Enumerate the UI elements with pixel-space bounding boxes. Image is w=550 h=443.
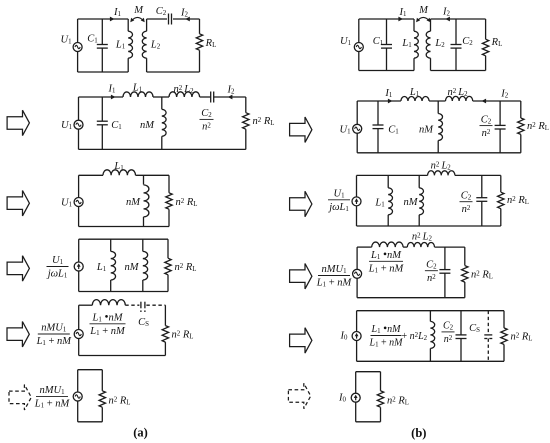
svg-text:n2 L2: n2 L2	[447, 87, 468, 98]
wire row1a secondary top-left	[147, 18, 167, 20]
capacitor C2 row1b	[451, 45, 462, 49]
block arrow row3b	[290, 191, 312, 216]
wire row3a top left	[79, 174, 103, 176]
wire row5b bottom	[357, 360, 504, 362]
label I2 row2a	[227, 84, 236, 95]
capacitor C1 row1b	[381, 45, 392, 49]
inductor L1 row3b	[388, 175, 392, 226]
label M row1b	[418, 5, 429, 16]
svg-text:nM: nM	[419, 124, 434, 135]
label C2 row1b	[462, 36, 473, 47]
inductor L1 row2b	[401, 96, 429, 101]
capacitor C2/n2 row3b	[476, 198, 487, 202]
label nM row3b	[404, 197, 419, 208]
svg-text:C2: C2	[201, 108, 212, 119]
current arrow I1 row1b	[398, 17, 403, 22]
voltage source U1 row2b	[353, 124, 362, 133]
capacitor C1 row2b	[373, 125, 384, 129]
svg-text:U1: U1	[52, 255, 64, 266]
svg-text:C2: C2	[443, 321, 454, 332]
svg-text:U1: U1	[60, 35, 72, 46]
svg-text:CS: CS	[138, 317, 149, 328]
wire row5b left	[356, 311, 358, 362]
svg-text:RL: RL	[205, 38, 217, 49]
wire row5a top left	[79, 304, 93, 306]
label Leq fraction row4b	[368, 249, 405, 275]
wire row4a left	[78, 239, 80, 291]
resistor RL row1b	[482, 39, 488, 56]
label n2L2 row2b	[447, 87, 468, 98]
label Cs row5b	[469, 323, 480, 334]
svg-text:I1: I1	[108, 84, 117, 95]
wire capacitor C2 branch row1b	[455, 19, 457, 71]
wire capacitor C2/n2 branch row3b	[481, 175, 483, 226]
label I2 row1a	[180, 8, 189, 19]
svg-text:I0: I0	[338, 393, 347, 404]
svg-text:n2 RL: n2 RL	[109, 395, 131, 406]
voltage source U1 row3a	[74, 198, 83, 207]
wire row1b primary top	[359, 18, 414, 20]
wire row2b bottom	[357, 152, 521, 154]
label n2L2 row4b	[412, 232, 433, 243]
label C2/n2 row4b	[425, 259, 438, 284]
inductor Leq row5b	[430, 311, 434, 362]
label L1 row1b	[401, 38, 412, 49]
svg-text:I2: I2	[227, 84, 236, 95]
svg-text:C2: C2	[426, 259, 437, 270]
current arrow I1 row2a	[111, 95, 116, 100]
capacitor C1 row2a	[97, 121, 108, 125]
svg-text:C2: C2	[156, 6, 167, 17]
label M row1a	[133, 5, 144, 16]
label n2RL row6b	[387, 395, 409, 406]
wire row1a primary left	[77, 19, 79, 72]
svg-text:(a): (a)	[133, 426, 148, 440]
label n2RL row4a	[175, 262, 197, 273]
label n2RL row6a	[109, 395, 131, 406]
svg-text:n2 RL: n2 RL	[507, 195, 529, 206]
label C1 row2b	[388, 124, 399, 135]
svg-text:+ n2L2: + n2L2	[402, 331, 428, 342]
wire row6b right	[380, 372, 382, 422]
inductor Leq row4b	[372, 242, 403, 247]
resistor n2RL row6b	[377, 391, 383, 407]
label L2 row1b	[434, 38, 445, 49]
capacitor C2/n2 row4b	[439, 270, 450, 274]
resistor n2RL row6a	[99, 391, 105, 407]
wire capacitor C1 branch row1b	[386, 19, 388, 71]
label C2 row1a	[156, 6, 167, 17]
wire row4b top right	[435, 246, 465, 248]
wire dashed row5a	[125, 304, 139, 306]
svg-text:M: M	[418, 5, 429, 16]
svg-text:L1 •nM: L1 •nM	[370, 249, 402, 261]
voltage source U1 row1b	[354, 43, 363, 52]
svg-text:L1: L1	[132, 83, 143, 94]
wire row2b top1	[357, 100, 401, 102]
capacitor Cs dashed row5a	[141, 302, 145, 312]
label n2RL row2a	[253, 116, 275, 127]
wire dashed row5a right	[146, 304, 165, 306]
svg-text:I2: I2	[500, 89, 509, 100]
label C1 row1b	[373, 36, 384, 47]
label n2RL row4b	[471, 269, 493, 280]
label U1/jwL1 row3b	[327, 189, 350, 214]
svg-text:n2: n2	[462, 204, 471, 215]
label I1 row2a	[108, 84, 117, 95]
block arrow row5b	[290, 328, 312, 353]
svg-text:n2 RL: n2 RL	[527, 121, 549, 132]
wire row2b top3	[473, 100, 521, 102]
wire row2b top2	[429, 100, 445, 102]
label I1 row1b	[399, 7, 408, 18]
capacitor C2/n2 row2b	[495, 125, 506, 129]
svg-text:L1 + nM: L1 + nM	[369, 338, 404, 349]
wire row6b bottom	[356, 421, 381, 423]
label I0 row6b	[338, 393, 347, 404]
wire row3b left	[356, 175, 358, 226]
label C2/n2 row5b	[442, 321, 455, 346]
svg-text:nM: nM	[140, 120, 155, 131]
svg-text:L1 + nM: L1 + nM	[89, 326, 126, 337]
label nMU1/(L1+nM) row5a	[36, 323, 73, 348]
label n2L2 row2a	[173, 84, 194, 95]
svg-text:jωL1: jωL1	[46, 269, 68, 280]
mutual coupling M row1b	[416, 17, 430, 22]
svg-text:L1 + nM: L1 + nM	[368, 264, 405, 275]
label RL row1b	[491, 37, 503, 48]
wire row4b top left	[357, 246, 372, 248]
svg-text:C2: C2	[462, 36, 473, 47]
wire row5b top	[357, 310, 504, 312]
wire row1a secondary top-right	[173, 18, 200, 20]
current arrow I1 row1a	[110, 17, 115, 22]
block arrow row2b	[290, 117, 312, 142]
svg-text:U1: U1	[61, 120, 73, 131]
capacitor C2/n2 series row2a	[211, 92, 214, 103]
label Leq fraction row5a	[89, 312, 126, 338]
label U1/jwL1 row4a	[46, 255, 69, 280]
svg-text:n2 RL: n2 RL	[511, 332, 533, 343]
wire row5b right	[503, 311, 505, 362]
label nM row2b	[419, 124, 434, 135]
capacitor C2/n2 row5b	[456, 335, 467, 339]
svg-text:L1 •nM: L1 •nM	[371, 323, 402, 335]
label I0 row5b	[340, 331, 349, 342]
label L1 row2b	[409, 87, 420, 98]
svg-text:U1: U1	[61, 198, 73, 209]
label C2/n2 row2a	[200, 108, 214, 133]
voltage source row4b	[353, 269, 362, 278]
current arrow I2 row1b	[445, 17, 450, 22]
wire row6a left	[77, 370, 79, 422]
label n2RL row2b	[527, 121, 549, 132]
inductor n2L2 row4b	[407, 243, 434, 248]
svg-text:L1: L1	[115, 40, 126, 51]
block arrow row2a	[7, 110, 29, 135]
wire row1a secondary bottom	[147, 71, 200, 73]
wire row5a bottom	[79, 355, 166, 357]
label L1 row4a	[96, 262, 107, 273]
wire row1b primary left	[358, 19, 360, 71]
label n2L2 row3b	[431, 160, 452, 171]
label n2RL row5b	[511, 332, 533, 343]
voltage source U1 row2a	[74, 120, 83, 129]
wire row3b right	[500, 175, 502, 226]
svg-text:nM: nM	[125, 262, 140, 273]
wire row4a right	[167, 239, 169, 291]
svg-text:I1: I1	[113, 7, 122, 18]
inductor L1 row1b	[414, 19, 418, 71]
capacitor C2 row1a	[169, 14, 172, 25]
svg-text:L1: L1	[409, 87, 420, 98]
svg-text:L1 + nM: L1 + nM	[34, 399, 71, 410]
wire row1a primary bottom	[78, 71, 129, 73]
wire row2a top right1	[200, 96, 211, 98]
label nM row2a	[140, 120, 155, 131]
capacitor C1 row1a	[97, 45, 108, 49]
label nM row4a	[125, 262, 140, 273]
wire row4a bottom	[79, 291, 168, 293]
voltage source row6a	[73, 392, 82, 401]
svg-text:U1: U1	[333, 189, 345, 200]
resistor n2RL row3a	[166, 193, 172, 209]
wire row2a top	[79, 96, 124, 98]
label U1 row2b	[339, 124, 351, 135]
block arrow row3a	[7, 191, 29, 216]
svg-text:I1: I1	[399, 7, 408, 18]
wire capacitor C2/n2 branch row4b	[444, 247, 446, 298]
svg-text:CS: CS	[469, 323, 480, 334]
svg-text:C1: C1	[388, 124, 399, 135]
svg-text:L1: L1	[401, 38, 412, 49]
wire row6a right	[101, 370, 103, 422]
wire row2a top right2	[214, 96, 246, 98]
dashed arrow row6a	[9, 385, 31, 410]
current source row4a	[74, 262, 83, 271]
svg-text:L2: L2	[434, 38, 445, 49]
label U1 row1b	[340, 36, 352, 47]
label L1 row2a	[132, 83, 143, 94]
svg-text:I1: I1	[384, 88, 393, 99]
current source row6b	[351, 393, 360, 402]
svg-text:L1 + nM: L1 + nM	[316, 278, 353, 289]
label C2/n2 row3b	[460, 190, 473, 215]
svg-text:C2: C2	[481, 114, 492, 125]
label L1 row3b	[374, 198, 385, 209]
svg-text:L1: L1	[96, 262, 107, 273]
svg-text:nM: nM	[126, 197, 141, 208]
current arrow I2 row2b	[482, 99, 487, 104]
label C1 row1a	[87, 34, 98, 45]
label L2 row1a	[150, 40, 161, 51]
wire row4b right	[464, 247, 466, 298]
inductor nM row4a	[143, 239, 148, 291]
svg-text:(b): (b)	[411, 426, 426, 440]
label nM row3a	[126, 197, 141, 208]
inductor L2 row1b	[426, 19, 430, 71]
wire row1a primary top	[78, 18, 129, 20]
current source row5b	[352, 332, 361, 341]
svg-text:n2 RL: n2 RL	[253, 116, 275, 127]
voltage source U1 row1a	[73, 43, 82, 52]
inductor L1 row4a	[111, 239, 116, 291]
label U1 row1a	[60, 35, 72, 46]
label nMU1/(L1+nM) row6a	[34, 385, 71, 410]
inductor n2L2 row2b	[446, 96, 473, 101]
svg-text:n2 L2: n2 L2	[431, 160, 452, 171]
wire row1b secondary top	[431, 18, 486, 20]
label L1 row3a	[113, 161, 124, 172]
current arrow I2 row2a	[228, 95, 233, 100]
wire row6b top	[356, 371, 381, 373]
block arrow row4a	[7, 256, 29, 281]
wire row6a bottom	[78, 421, 103, 423]
label I2 row2b	[500, 89, 509, 100]
wire row4a top	[79, 238, 168, 240]
svg-text:C1: C1	[373, 36, 384, 47]
capacitor Cs dashed branch row5b	[484, 311, 492, 362]
dashed arrow row6b	[288, 383, 310, 408]
label (a)	[133, 426, 148, 440]
wire row4b left	[356, 247, 358, 298]
wire row4b bottom	[357, 297, 465, 299]
svg-text:jωL1: jωL1	[327, 202, 349, 213]
mutual coupling M row1a	[130, 17, 144, 22]
svg-text:L1: L1	[113, 161, 124, 172]
wire row2a left	[78, 97, 80, 149]
wire row1b primary bottom	[359, 70, 414, 72]
wire capacitor C1 branch row2b	[377, 101, 379, 153]
wire capacitor C1 branch row1a	[101, 19, 103, 72]
wire row2a top mid	[153, 96, 169, 98]
label I1 row1a	[113, 7, 122, 18]
svg-text:n2 L2: n2 L2	[173, 84, 194, 95]
svg-text:U1: U1	[340, 36, 352, 47]
svg-text:n2 RL: n2 RL	[471, 269, 493, 280]
wire row2a right	[245, 97, 247, 149]
svg-text:I0: I0	[340, 331, 349, 342]
wire row3a left	[78, 175, 80, 226]
label n2RL row5a	[172, 330, 194, 341]
resistor RL row1a	[196, 34, 202, 50]
svg-text:n2 L2: n2 L2	[412, 232, 433, 243]
label RL row1a	[205, 38, 217, 49]
wire capacitor C1 branch row2a	[101, 97, 103, 149]
resistor n2RL row2a	[243, 113, 249, 130]
wire row1b secondary right	[485, 19, 487, 71]
inductor nM row3a	[144, 175, 149, 226]
label U1 row2a	[61, 120, 73, 131]
resistor n2RL row5a	[162, 326, 168, 343]
wire row1b secondary bottom	[431, 70, 486, 72]
label (b)	[411, 426, 426, 440]
label U1 row3a	[61, 198, 73, 209]
svg-text:nMU1: nMU1	[41, 323, 67, 334]
wire row3b top right	[455, 174, 501, 176]
inductor L2 row1a	[142, 19, 146, 72]
svg-text:L2: L2	[150, 40, 161, 51]
wire row3a right	[168, 175, 170, 226]
svg-text:n2 RL: n2 RL	[387, 395, 409, 406]
current arrow I2 row1a	[185, 17, 190, 22]
svg-text:nMU1: nMU1	[39, 385, 65, 396]
svg-text:L1 •nM: L1 •nM	[92, 312, 124, 324]
svg-text:L1 + nM: L1 + nM	[36, 336, 73, 347]
inductor n2L2 row2a	[169, 92, 200, 97]
wire row4b top mid	[403, 246, 407, 248]
resistor n2RL row3b	[498, 192, 504, 209]
svg-text:n2: n2	[444, 334, 453, 345]
current arrow I1 row2b	[388, 99, 393, 104]
svg-text:I2: I2	[442, 7, 451, 18]
svg-text:M: M	[133, 5, 144, 16]
block arrow row4b	[290, 264, 312, 289]
wire row6b left	[355, 372, 357, 422]
svg-text:n2 RL: n2 RL	[176, 197, 198, 208]
svg-text:nMU1: nMU1	[321, 264, 347, 275]
wire row2b left	[356, 101, 358, 153]
label C2/n2 row2b	[480, 114, 493, 139]
wire row6a top	[78, 369, 103, 371]
svg-text:n2: n2	[202, 122, 211, 133]
svg-text:n2: n2	[482, 128, 491, 139]
wire row2a bottom	[79, 148, 246, 150]
svg-text:n2 RL: n2 RL	[172, 330, 194, 341]
inductor nM row3b	[419, 175, 423, 226]
inductor nM row2a	[162, 97, 166, 149]
label C1 row2a	[111, 120, 122, 131]
resistor n2RL row4b	[462, 266, 468, 283]
svg-text:nM: nM	[404, 197, 419, 208]
label Cs row5a	[138, 317, 149, 328]
wire row1a secondary right	[199, 19, 201, 72]
voltage source row5a	[74, 330, 83, 339]
resistor n2RL row5b	[501, 328, 507, 345]
wire row5a left	[78, 305, 80, 355]
svg-text:U1: U1	[339, 124, 351, 135]
inductor Leq row5a	[92, 300, 125, 306]
label nMU1/(L1+nM) row4b	[316, 264, 353, 289]
wire row3b top	[357, 174, 428, 176]
label I1 row2b	[384, 88, 393, 99]
svg-text:C2: C2	[461, 190, 472, 201]
wire row3a bottom	[79, 226, 169, 228]
inductor n2L2 row3b	[428, 171, 455, 176]
block arrow row5a	[7, 322, 29, 347]
wire row5a right	[164, 305, 166, 355]
svg-text:RL: RL	[491, 37, 503, 48]
wire row3a top right	[136, 174, 170, 176]
current source row3b	[352, 197, 361, 206]
wire row3b bottom	[357, 225, 501, 227]
label n2RL row3a	[176, 197, 198, 208]
inductor L1 row3a	[103, 170, 136, 175]
svg-text:n2 RL: n2 RL	[175, 262, 197, 273]
resistor n2RL row4a	[165, 258, 171, 275]
inductor L1 row1a	[128, 19, 132, 72]
svg-text:n2: n2	[427, 273, 436, 284]
label I2 row1b	[442, 7, 451, 18]
label L1 row1a	[115, 40, 126, 51]
inductor L1 row2a	[123, 92, 153, 97]
svg-text:I2: I2	[180, 8, 189, 19]
resistor n2RL row2b	[518, 118, 524, 134]
wire row2b right	[520, 101, 522, 153]
svg-text:L1: L1	[374, 198, 385, 209]
label n2RL row3b	[507, 195, 529, 206]
svg-text:C1: C1	[87, 34, 98, 45]
